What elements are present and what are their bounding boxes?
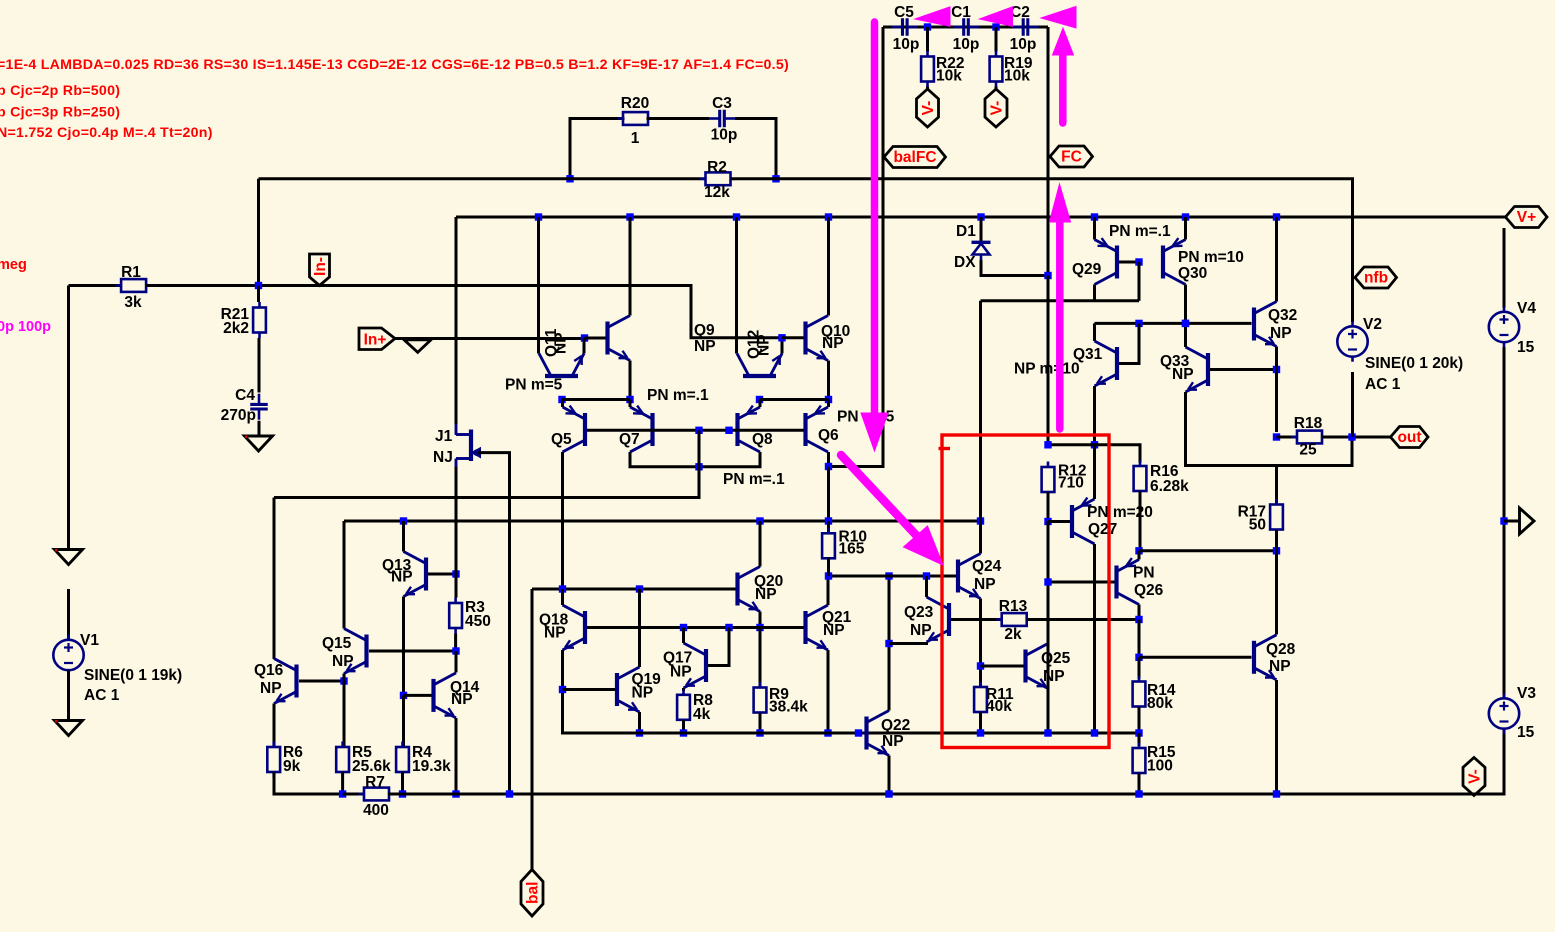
svg-text:PN m=20: PN m=20: [1087, 504, 1153, 521]
wire R9 top lead: [759, 628, 762, 688]
wire R16 top elbow: [1095, 445, 1141, 463]
wire R13 row: [951, 618, 1002, 621]
svg-text:p Cjc=2p Rb=500): p Cjc=2p Rb=500): [0, 83, 120, 99]
svg-text:C2: C2: [1010, 4, 1030, 21]
wire Q30 emitter lead: [1184, 217, 1187, 240]
svg-text:Q9: Q9: [694, 322, 715, 339]
svg-text:PN: PN: [1133, 565, 1155, 582]
svg-text:nfb: nfb: [1364, 270, 1388, 287]
value R18 25: [1299, 442, 1317, 459]
wire Q18 emitter col: [563, 650, 638, 733]
svg-text:3k: 3k: [124, 294, 142, 311]
svg-text:10k: 10k: [936, 68, 962, 85]
transistor Q6: [806, 406, 829, 452]
net flag V- below R22: [917, 89, 939, 127]
wire R10 bottom lead: [827, 557, 830, 576]
transistor Q22: [867, 711, 890, 756]
wire Q24 collector lead: [979, 521, 982, 554]
label Q11 NP: [553, 332, 570, 354]
label C1: [951, 4, 971, 21]
value J1 NJ: [433, 449, 453, 466]
svg-text:10p: 10p: [711, 127, 738, 144]
svg-text:4k: 4k: [693, 706, 711, 723]
svg-text:NP: NP: [910, 622, 932, 639]
junction Q29/Q30 base: [1135, 258, 1142, 265]
value Q28 NP: [1269, 658, 1291, 675]
SPICE directive text line 2: [0, 83, 120, 99]
svg-text:N=1.752 Cjo=0.4p M=.4 Tt=20n): N=1.752 Cjo=0.4p M=.4 Tt=20n): [0, 125, 213, 141]
wire bottom rail left: [343, 793, 365, 796]
svg-text:PN m=.1: PN m=.1: [723, 471, 785, 488]
value R22 10k: [936, 68, 962, 85]
magenta arrowhead A3 (top right): [1041, 7, 1076, 29]
value C4 270p: [221, 407, 256, 424]
label R14: [1147, 682, 1176, 699]
transistor Q10: [806, 316, 829, 361]
wire V4 bottom: [1503, 347, 1506, 698]
svg-text:Q30: Q30: [1178, 265, 1207, 282]
wire V+ rail: [456, 216, 1505, 219]
junction row521 x980: [977, 517, 984, 524]
wire Q17 base elbow: [708, 628, 729, 666]
resistor R1: [116, 279, 152, 292]
wire row323: [1095, 322, 1252, 325]
wire Q8 collector loop: [699, 452, 760, 467]
wire bal row: [532, 588, 736, 591]
label Q5: [551, 431, 572, 448]
svg-text:C3: C3: [712, 95, 732, 112]
label Q19: [632, 671, 662, 688]
wire Q33 base: [1210, 368, 1277, 371]
svg-text:NP: NP: [391, 569, 413, 586]
svg-text:NP: NP: [553, 332, 570, 354]
junction row445 R12: [1044, 441, 1051, 448]
label Q18: [539, 612, 569, 629]
junction R2 row right: [772, 175, 779, 182]
net flag V+: [1506, 207, 1548, 228]
wire Q8 emitter lead: [759, 400, 762, 408]
junction Q10emitter/Q6: [825, 396, 832, 403]
net flag bal: [521, 870, 543, 917]
wire bal column: [531, 589, 534, 870]
voltage source V4: [1489, 307, 1519, 347]
junction bottom rail R15: [1135, 790, 1142, 797]
wire R20-C3 loop: [570, 119, 625, 179]
wire R12 bottom lead: [1047, 492, 1050, 522]
label Q21: [822, 609, 852, 626]
svg-text:C5: C5: [894, 4, 914, 21]
junction bal row Q19: [636, 585, 643, 592]
wire Q17 emitter lead: [682, 688, 685, 691]
capacitor C3: [709, 110, 735, 128]
wire base col to row300: [1138, 262, 1141, 301]
wire row521: [344, 520, 981, 523]
svg-text:PN m=.1: PN m=.1: [647, 387, 709, 404]
label R1: [121, 264, 141, 281]
label R10: [839, 529, 867, 546]
resistor R20: [618, 112, 654, 125]
svg-text:Q8: Q8: [752, 431, 773, 448]
wire row300: [981, 299, 1095, 302]
label Q16: [254, 662, 284, 679]
svg-text:400: 400: [363, 802, 389, 819]
wire Q24 emitter col: [979, 599, 982, 688]
wire R14 bottom lead: [1138, 707, 1141, 733]
svg-text:Q22: Q22: [881, 717, 910, 734]
transistor Q15: [344, 629, 367, 674]
svg-text:Q25: Q25: [1041, 650, 1071, 667]
svg-text:165: 165: [839, 541, 865, 558]
resistor R14: [1133, 676, 1146, 712]
wire top cap row: [883, 26, 1048, 29]
junction Q26 base: [1044, 578, 1051, 585]
wire V4 top: [1503, 228, 1506, 308]
junction V+ rail x=736.5: [733, 213, 740, 220]
junction rail Q21: [824, 729, 831, 736]
junction row323 Q31: [1135, 320, 1142, 327]
svg-text:NP: NP: [451, 691, 473, 708]
wire R20 to C3: [647, 117, 710, 120]
wire col699 up: [698, 430, 701, 467]
wire base row430: [587, 429, 804, 432]
value V1 SINE: [84, 667, 182, 684]
wire Q21 emitter lead: [827, 650, 830, 733]
svg-text:meg: meg: [0, 257, 27, 273]
svg-text:D1: D1: [956, 223, 976, 240]
magenta arrow A5 (up, at FC): [1050, 184, 1071, 429]
svg-text:R13: R13: [999, 598, 1028, 615]
wire colN 369-437: [1275, 370, 1278, 433]
junction rail J1: [506, 790, 513, 797]
transistor Q19: [617, 667, 640, 712]
label R4: [412, 744, 432, 761]
net flag FC: [1050, 146, 1093, 167]
value V4 15: [1517, 339, 1535, 356]
label R17: [1238, 504, 1266, 521]
wire R9 to rail: [759, 713, 762, 733]
svg-text:Q23: Q23: [904, 604, 934, 621]
resistor R11: [974, 682, 987, 718]
value R10 165: [839, 541, 865, 558]
wire Q32 emitter lead: [1275, 347, 1278, 370]
value R4 19.3k: [412, 758, 451, 775]
svg-text:In+: In+: [364, 332, 387, 349]
junction V+ rail x=1185.5: [1182, 213, 1189, 220]
label R6: [283, 744, 303, 761]
wire C3 to corner: [735, 119, 776, 179]
junction row323 Q33: [1182, 320, 1189, 327]
wire Q10 emitter col: [827, 361, 830, 400]
label Q30: [1178, 265, 1207, 282]
wire Q32 collector lead: [1275, 217, 1278, 302]
junction In+ at Q9 base: [581, 334, 588, 341]
text NP m=10 Q31: [1014, 361, 1080, 378]
wire Q28 emitter lead: [1275, 680, 1278, 794]
text PN m=.1 Q29: [1109, 223, 1171, 240]
label V1: [80, 632, 99, 649]
svg-text:V3: V3: [1517, 685, 1536, 702]
label R12: [1058, 463, 1086, 480]
wire V1 bottom: [67, 670, 70, 720]
wire Q29 emitter lead: [1093, 285, 1096, 301]
resistor R7: [359, 788, 395, 801]
svg-text:Q16: Q16: [254, 662, 284, 679]
svg-text:50: 50: [1249, 517, 1266, 534]
svg-text:J1: J1: [435, 428, 453, 445]
wire balFC column: [828, 27, 883, 467]
junction Q16 base row: [340, 677, 347, 684]
label Q8: [752, 431, 773, 448]
label Q24: [972, 558, 1002, 575]
net flag balFC: [884, 147, 946, 168]
resistor R8: [677, 689, 690, 725]
wire R3 to Q15row: [454, 634, 457, 652]
wire R17 top lead: [1275, 466, 1278, 505]
label Q23: [904, 604, 934, 621]
text PN m=10 Q30: [1178, 249, 1244, 266]
wire Q22 collector col: [888, 576, 891, 711]
label R9: [769, 686, 789, 703]
value Q21 NP: [823, 622, 845, 639]
junction R2 row left: [566, 175, 573, 182]
wire R22 to flag: [926, 87, 929, 90]
wire R21 to C4: [258, 338, 261, 393]
wire Q9 base: [585, 337, 606, 340]
svg-text:SINE(0 1 20k): SINE(0 1 20k): [1365, 355, 1463, 372]
svg-text:40k: 40k: [986, 698, 1012, 715]
wire Q15 emitter lead: [343, 674, 346, 682]
SPICE directive text line 3: [0, 105, 120, 121]
label D1: [956, 223, 976, 240]
label R20: [621, 95, 649, 112]
value R5 25.6k: [352, 758, 391, 775]
junction V+ rail x=630: [626, 213, 633, 220]
net flag V- below R19: [985, 89, 1007, 127]
svg-text:PN m=.1: PN m=.1: [1109, 223, 1171, 240]
junction rail639: [636, 729, 643, 736]
junction rail 1048: [1044, 729, 1051, 736]
label R2: [707, 159, 727, 176]
value Q22 NP: [882, 733, 904, 750]
wire In- row: [146, 286, 782, 338]
wire Q26 collector lead: [1138, 605, 1141, 620]
wire Q14 collector lead: [455, 651, 458, 673]
value V3 15: [1517, 724, 1535, 741]
wire Q19 base: [563, 688, 616, 691]
svg-text:9k: 9k: [283, 758, 301, 775]
value Q10 NP: [822, 335, 844, 352]
wire col980 upper: [979, 301, 982, 521]
wire Q10 base: [782, 336, 804, 339]
wire Q19 emitter lead: [638, 712, 641, 733]
resistor R10: [822, 528, 835, 564]
resistor R12: [1042, 462, 1055, 498]
ground above V1: [55, 549, 83, 565]
value R7 400: [363, 802, 389, 819]
wire R11 to rail: [979, 712, 982, 733]
junction V+ rail x=828.5: [825, 213, 832, 220]
resistor R2: [700, 172, 736, 185]
directive text meg: [0, 257, 27, 273]
wire Q20 collector lead: [759, 521, 762, 567]
annotation text 0p 100p: [0, 319, 51, 335]
svg-text:2k: 2k: [1004, 626, 1022, 643]
junction bal row Q18: [559, 585, 566, 592]
svg-text:2k2: 2k2: [223, 320, 249, 337]
wire Q18 collector lead: [561, 589, 564, 605]
svg-text:38.4k: 38.4k: [769, 699, 808, 716]
resistor R22: [921, 51, 934, 87]
wire col1048 down: [1047, 522, 1050, 734]
label C4: [235, 387, 255, 404]
wire Q29 base: [1119, 261, 1139, 264]
junction V+ rail x=981: [977, 213, 984, 220]
wire R2 row right: [731, 179, 1353, 263]
value C2 10p: [1010, 36, 1037, 53]
svg-text:p Cjc=3p Rb=250): p Cjc=3p Rb=250): [0, 105, 120, 121]
wire col344 down: [343, 681, 346, 746]
label R18: [1294, 415, 1323, 432]
wire J1 source col: [455, 467, 458, 498]
junction row627 x683: [680, 624, 687, 631]
junction rail 1094: [1091, 729, 1098, 736]
wire Q12 collector col: [735, 217, 738, 354]
value D1 DX: [954, 254, 976, 271]
magenta arrow A4 (up, below C2): [1053, 28, 1074, 123]
svg-text:NP: NP: [632, 685, 654, 702]
svg-text:1: 1: [631, 130, 640, 147]
svg-text:Q26: Q26: [1134, 582, 1164, 599]
junction Q14 base row: [400, 692, 407, 699]
wire Q20 emitter lead: [759, 612, 762, 628]
capacitor C2: [1013, 18, 1039, 36]
label Q22: [881, 717, 910, 734]
value R15 100: [1147, 758, 1173, 775]
label Q25: [1041, 650, 1071, 667]
svg-text:PN m=10: PN m=10: [1178, 249, 1244, 266]
svg-text:V+: V+: [1517, 209, 1536, 226]
junction Q11 base row: [558, 396, 565, 403]
junction row521 x760: [756, 517, 763, 524]
value R1 3k: [124, 294, 142, 311]
net flag nfb: [1355, 267, 1397, 288]
svg-text:10p: 10p: [953, 36, 980, 53]
wire Q30 collector lead: [1184, 285, 1187, 324]
text PN m=.1 above Q7: [647, 387, 709, 404]
transistor Q26: [1117, 558, 1140, 604]
svg-text:R2: R2: [707, 159, 727, 176]
wire Q12 base lead: [758, 399, 761, 400]
junction row430 x699: [695, 427, 702, 434]
svg-text:270p: 270p: [221, 407, 256, 424]
svg-text:AC 1: AC 1: [84, 687, 120, 704]
wire In- left vert: [257, 179, 260, 286]
wire R13 row right: [1027, 618, 1140, 621]
wire V2 top: [1351, 263, 1354, 322]
value Q33 NP: [1172, 366, 1194, 383]
transistor Q17: [684, 643, 707, 688]
svg-text:15: 15: [1517, 724, 1535, 741]
junction R16 bottom: [1135, 547, 1142, 554]
wire Q29 collector lead: [1093, 217, 1096, 240]
wire row576: [829, 575, 957, 578]
wire Q15 collector col: [343, 521, 346, 629]
junction V4 gnd: [1500, 517, 1507, 524]
junction rail Q22base: [855, 729, 862, 736]
transistor Q16: [274, 659, 297, 704]
svg-text:V-: V-: [1467, 769, 1484, 784]
label J1: [435, 428, 453, 445]
wire Q16 base row: [299, 680, 344, 683]
wire Q13 emitter col: [402, 597, 405, 696]
svg-text:V2: V2: [1363, 316, 1382, 333]
svg-text:NP: NP: [1172, 366, 1194, 383]
value C5 10p: [893, 36, 920, 53]
junction Q27 base: [1044, 518, 1051, 525]
label Q31: [1073, 346, 1103, 363]
wire FC column lower: [1047, 276, 1050, 445]
SPICE directive text line 4: [0, 125, 213, 141]
wire Q5 emitter lead: [561, 400, 564, 408]
svg-text:6.28k: 6.28k: [1150, 478, 1189, 495]
junction In- at R21: [255, 282, 262, 289]
capacitor C5: [892, 18, 918, 36]
svg-text:NP: NP: [882, 733, 904, 750]
wire Q13 collector lead: [402, 521, 405, 552]
label Q14: [450, 679, 480, 696]
wire Q31 base elbow: [1119, 323, 1139, 363]
value Q32 NP: [1270, 325, 1292, 342]
value R19 10k: [1004, 68, 1030, 85]
wire Q27 emitter lead: [1093, 445, 1096, 499]
SPICE directive text line 1: [0, 57, 789, 73]
svg-text:NP: NP: [756, 334, 773, 356]
svg-text:10k: 10k: [1004, 68, 1030, 85]
wire base row627: [587, 626, 804, 629]
wire R22 lead: [926, 27, 929, 52]
wire R14 top lead: [1138, 657, 1141, 679]
svg-text:In-: In-: [312, 257, 329, 276]
resistor R19: [990, 51, 1003, 87]
wire Q19 collector lead: [638, 589, 641, 667]
junction Q15 base row right: [452, 647, 459, 654]
wire Q11 base lead: [560, 399, 563, 400]
svg-text:80k: 80k: [1147, 695, 1173, 712]
svg-text:C4: C4: [235, 387, 255, 404]
ground below C4: [245, 435, 273, 451]
wire bottom rail: [388, 729, 1504, 795]
wire Q28 collector lead: [1275, 551, 1278, 635]
net flag V- bottom: [1463, 758, 1485, 796]
jfet J1: [456, 424, 481, 467]
junction Q13 base: [452, 570, 459, 577]
svg-text:Q32: Q32: [1268, 307, 1297, 324]
red tick mark: [939, 447, 951, 450]
wire Q14 base: [404, 694, 432, 697]
value R12 710: [1058, 475, 1084, 492]
value R13 2k: [1004, 626, 1022, 643]
resistor R18: [1292, 431, 1328, 444]
wire Q16 emitter lead: [273, 704, 276, 747]
wire R4 to rail: [401, 772, 404, 794]
magenta arrow A6 (long down): [861, 22, 888, 451]
value Q14 NP: [451, 691, 473, 708]
value Q20 NP: [755, 586, 777, 603]
ground below V1: [55, 720, 83, 736]
svg-text:Q6: Q6: [818, 427, 839, 444]
label R21: [221, 306, 250, 323]
junction row445 left: [1091, 441, 1098, 448]
